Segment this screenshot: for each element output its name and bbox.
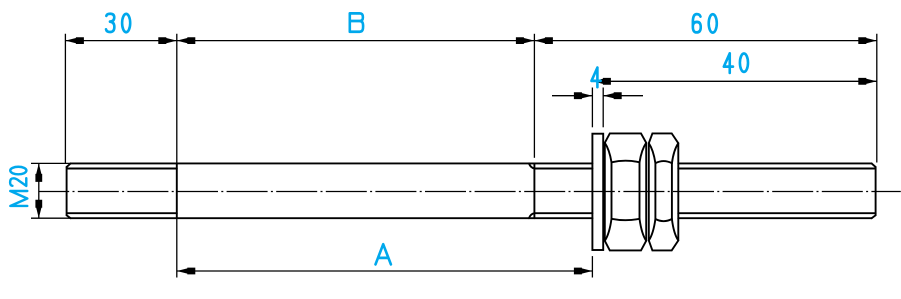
right thread full-thread line xyxy=(533,163,535,218)
nut 2 top middle chamfer arc xyxy=(655,161,672,163)
nut 1 bottom right face arc xyxy=(640,219,647,241)
dimension line M20 xyxy=(38,163,40,218)
rod right minor bottom line xyxy=(678,212,875,214)
rod major top edge (right of nut 2) xyxy=(678,162,871,164)
nut 1 top middle chamfer arc xyxy=(612,161,640,163)
arrow M20 up xyxy=(35,163,42,182)
M20 extension line top xyxy=(31,162,70,164)
nut 2 facet line right xyxy=(671,163,673,219)
text 60 xyxy=(693,14,701,32)
right thread runout arc top xyxy=(529,163,535,168)
arrow 4 right (outside) xyxy=(603,92,622,99)
nut 1 bottom middle chamfer arc xyxy=(612,219,640,220)
centerline xyxy=(39,191,901,193)
rod right end face xyxy=(875,167,877,215)
washer outline xyxy=(592,134,603,250)
top dimension line (30 / B / 60) xyxy=(65,40,876,42)
arrow M20 down xyxy=(35,200,42,219)
extension line at rod right end xyxy=(876,34,878,163)
nut 1 bottom left face arc xyxy=(605,219,612,241)
left thread end line xyxy=(176,163,178,218)
nut 2 facet line left xyxy=(654,163,656,219)
rod left end face xyxy=(66,167,68,215)
arrow 60 right xyxy=(858,37,877,44)
right thread minor top line (to washer) xyxy=(534,168,592,170)
text 4 (washer thickness) xyxy=(592,68,601,88)
nut 2 top left face arc xyxy=(649,143,656,163)
rod major diameter bottom edge (left to washer) xyxy=(71,217,593,219)
extension line washer left above xyxy=(591,88,593,128)
arrow B left xyxy=(177,37,196,44)
rod right end chamfer top xyxy=(872,163,876,167)
arrow 4 left (outside) xyxy=(574,92,593,99)
rod major diameter top edge (left to washer) xyxy=(71,162,593,164)
nut 1 facet line right xyxy=(639,162,641,219)
right thread runout arc bottom xyxy=(529,213,535,218)
arrow 30 left xyxy=(65,37,84,44)
nut 2 top right face arc xyxy=(672,143,678,163)
arrow 40 right xyxy=(858,78,877,85)
dimension line 4 left part xyxy=(552,95,592,97)
arrow 30 right xyxy=(158,37,177,44)
M20 extension line bottom xyxy=(31,217,70,219)
rod left end chamfer bottom xyxy=(67,215,71,218)
dimension line A xyxy=(177,270,593,272)
nut 1 outline xyxy=(605,133,646,250)
text A xyxy=(376,244,391,264)
nut 1 top right face arc xyxy=(640,143,647,163)
nut 2 bottom left face arc xyxy=(649,219,656,241)
text 30 xyxy=(106,14,114,32)
rod right end chamfer bottom xyxy=(872,215,876,218)
nut 1 facet line left xyxy=(611,162,613,219)
left thread minor diameter top line xyxy=(67,168,177,170)
nut 2 bottom middle chamfer arc xyxy=(655,219,672,221)
nut 2 outline xyxy=(649,133,679,250)
extension line washer right above xyxy=(602,88,604,128)
rod major bottom edge (right of nut 2) xyxy=(678,217,871,219)
nut 2 bottom right face arc xyxy=(672,219,678,241)
nut 1 top left face arc xyxy=(605,143,612,163)
arrow B right xyxy=(516,37,535,44)
extension line at right full-thread point xyxy=(533,34,535,158)
text M20 rotated xyxy=(10,191,27,206)
text 40 xyxy=(724,53,733,73)
rod left end chamfer top xyxy=(67,163,71,167)
arrow A left xyxy=(177,268,196,275)
text B xyxy=(350,13,363,31)
extension line at left thread end xyxy=(176,34,178,278)
rod right minor top line xyxy=(678,168,875,170)
extension line at rod left end xyxy=(64,34,66,163)
dimension line 4 right part xyxy=(603,95,643,97)
arrow 60 left xyxy=(534,37,553,44)
extension line washer left below xyxy=(591,256,593,277)
arrow 40 left xyxy=(592,78,611,85)
left thread minor diameter bottom line xyxy=(67,212,177,214)
dimension line 40 xyxy=(592,80,876,82)
arrow A right xyxy=(574,268,593,275)
right thread minor bottom line (to washer) xyxy=(534,212,592,214)
